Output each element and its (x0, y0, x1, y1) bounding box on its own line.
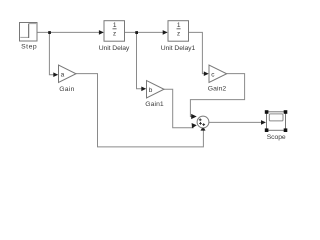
svg-text:1: 1 (113, 22, 117, 29)
svg-text:Gain2: Gain2 (208, 86, 227, 93)
wire Step to Unit Delay (37, 31, 103, 33)
wire Gain1 output to Sum lower-left input (164, 89, 194, 128)
arrowhead into Gain (53, 72, 58, 77)
svg-text:1: 1 (177, 22, 181, 29)
block Gain (59, 65, 77, 93)
arrowhead into Gain2 (204, 71, 209, 76)
node junction after Unit Delay (135, 31, 138, 34)
arrowhead up into Sum bottom (201, 126, 206, 131)
block Sum (197, 116, 209, 128)
wire Sum output to Scope (209, 121, 261, 123)
node junction after Step (48, 31, 51, 34)
block Scope (selected) (265, 110, 288, 141)
arrowhead into Unit Delay1 (163, 30, 168, 35)
svg-text:Gain: Gain (59, 86, 74, 93)
block Unit Delay1 (161, 21, 196, 53)
svg-text:b: b (149, 87, 153, 94)
svg-text:Unit Delay: Unit Delay (99, 45, 130, 52)
svg-text:z: z (177, 30, 180, 37)
wire branch down from node to Gain (49, 32, 53, 74)
svg-text:Gain1: Gain1 (145, 101, 164, 108)
block Unit Delay (99, 21, 130, 53)
svg-text:z: z (113, 30, 116, 37)
wire Gain2 output loop back to Sum upper-left input (190, 74, 244, 117)
arrowhead into Unit Delay (99, 30, 104, 35)
wire Unit Delay to Unit Delay1 (125, 31, 168, 33)
block Gain1 (145, 81, 164, 109)
arrowhead into Sum lower-left (192, 123, 197, 128)
svg-text:Scope: Scope (267, 134, 286, 141)
svg-text:Unit Delay1: Unit Delay1 (161, 45, 196, 52)
svg-text:Step: Step (21, 44, 37, 51)
wire Unit Delay1 to Gain2 (189, 32, 205, 73)
arrowhead into Sum upper-left (191, 114, 197, 119)
block Gain2 (208, 65, 227, 93)
arrowhead into Scope (261, 120, 266, 125)
block Step (20, 23, 38, 51)
wire branch down from node to Gain1 (137, 32, 142, 88)
wire Gain output to Sum bottom input (76, 74, 203, 147)
arrowhead into Gain1 (141, 87, 146, 92)
svg-text:a: a (61, 71, 65, 78)
